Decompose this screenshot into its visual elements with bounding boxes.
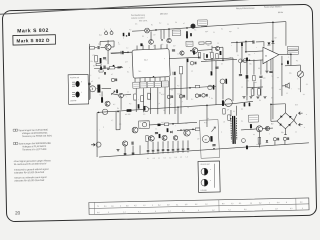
capacitor C50 dark bbox=[128, 33, 130, 36]
node: T1 base bbox=[101, 46, 106, 48]
IC bottom pin stubs bbox=[134, 78, 136, 82]
resistor R31 bbox=[253, 75, 256, 81]
capacitor C48 dark bbox=[116, 89, 118, 93]
transistor T10 bbox=[162, 135, 167, 140]
node J8 bbox=[245, 51, 247, 53]
connector Bu2 bbox=[102, 109, 108, 115]
trimmer pair TP2 bbox=[190, 61, 194, 65]
diode D9 bbox=[170, 131, 172, 133]
transistor T12 bbox=[256, 126, 262, 132]
node J20 bbox=[198, 57, 200, 59]
capacitor C33 dark bbox=[187, 59, 189, 63]
transistor T13 bbox=[180, 51, 184, 55]
socket pin stubs bbox=[105, 30, 107, 31]
transistor T2 bbox=[149, 40, 154, 45]
wire: net y62 bbox=[201, 59, 237, 61]
transistor T5 bbox=[192, 48, 198, 54]
capacitor C32 dark bbox=[193, 51, 195, 55]
wire: c36 c37 stubs bbox=[243, 102, 245, 103]
capacitor C34 dark bbox=[211, 71, 213, 75]
capacitor C14 dark bbox=[138, 104, 140, 108]
wire: mic input rail bbox=[89, 47, 97, 49]
node J26 bbox=[245, 41, 247, 43]
resistor R12 dark bbox=[101, 97, 103, 103]
wire: drop x236 bbox=[236, 42, 238, 52]
wire: net y49 bbox=[212, 46, 223, 49]
capacitor C12 bbox=[117, 67, 120, 68]
wire: riser x211 bbox=[211, 46, 212, 71]
wire: bridge bottom stub bbox=[284, 129, 286, 135]
plug arrow Bu4 bbox=[91, 143, 95, 146]
wire: drop x168 bbox=[168, 29, 170, 38]
resistor R10 bbox=[109, 67, 115, 70]
tick on left rail bbox=[89, 83, 90, 85]
capacitor C27 dark bbox=[250, 124, 252, 128]
capacitor C44 dark bbox=[241, 43, 243, 46]
motor M1 bbox=[202, 135, 209, 142]
wire: drops to rail left bbox=[124, 146, 126, 155]
node J29 bbox=[213, 148, 215, 150]
resistor R18 bbox=[146, 136, 149, 142]
wire: T1 emitter bbox=[107, 50, 110, 64]
resistor R28 bbox=[148, 93, 151, 99]
connector Bu3 bbox=[143, 107, 148, 112]
wire: mic link bbox=[97, 88, 99, 90]
wire: t12 row bbox=[241, 128, 257, 131]
capacitor C8 dark bbox=[220, 51, 222, 55]
node J28 bbox=[180, 129, 182, 131]
node J6 bbox=[272, 22, 274, 24]
connector Bu4 bbox=[96, 142, 101, 147]
capacitor C2 bbox=[103, 58, 106, 59]
node J7 bbox=[222, 60, 224, 62]
wire: top bus main bbox=[201, 22, 286, 27]
resistor R24 bbox=[199, 42, 204, 44]
capacitor C18 dark bbox=[222, 100, 224, 106]
label: TBA 800 type 2 bbox=[287, 51, 298, 55]
row of trimmers bbox=[167, 95, 170, 98]
bridge rectifier GL1 bbox=[277, 113, 294, 129]
wire: t6 links bbox=[111, 93, 119, 95]
transformer Tr1 core bbox=[232, 116, 234, 144]
diode D10 bbox=[266, 140, 268, 142]
resistor R1 bbox=[90, 47, 95, 50]
capacitor C51 dark bbox=[140, 43, 142, 46]
node J1 bbox=[127, 52, 129, 54]
transistor T14 bbox=[215, 47, 219, 51]
input circles pair bbox=[239, 59, 243, 63]
wire: op-amp feedback top bbox=[263, 42, 265, 47]
capacitor C3 electrolytic bbox=[120, 51, 122, 54]
resistor R20 bbox=[228, 115, 231, 121]
wire: drop x203 bbox=[203, 53, 205, 60]
wire: bus y108 bbox=[97, 109, 144, 112]
capacitor C47 bbox=[104, 65, 105, 68]
IC top pin stubs bbox=[136, 45, 138, 50]
bottom caps row A bbox=[124, 153, 127, 154]
node J22 bbox=[190, 50, 192, 52]
resistor R14 bbox=[223, 109, 226, 115]
capacitor C11 dark bbox=[100, 66, 102, 70]
capacitor C19 dark bbox=[246, 58, 248, 62]
wire: right bus drop B bbox=[285, 22, 286, 46]
wire: t11 row bbox=[177, 129, 197, 130]
node J31 bbox=[249, 59, 251, 61]
wire: drop x245 bbox=[245, 42, 247, 52]
transformer windings bbox=[231, 118, 237, 140]
text block: playback voltages note bbox=[13, 142, 15, 144]
node J13 bbox=[177, 106, 179, 108]
bottom table bbox=[89, 198, 309, 215]
resistor R32 bbox=[211, 52, 214, 58]
wire: opamp out bbox=[279, 53, 291, 56]
transistor T18 bbox=[132, 127, 138, 133]
capacitor C4 dark bbox=[186, 34, 188, 38]
diode D1 bbox=[271, 41, 274, 44]
diode D11 blob bbox=[157, 124, 160, 126]
wire: transformer primary top bbox=[230, 110, 232, 116]
resistor R25 bbox=[206, 42, 211, 44]
node J24 bbox=[189, 87, 191, 89]
diode D8 block bbox=[127, 109, 132, 112]
transistor T17 bbox=[173, 136, 177, 140]
wire: drop x246 bbox=[246, 59, 248, 100]
wire: speaker link bbox=[281, 56, 283, 96]
wire: opamp pin drops bbox=[266, 61, 268, 71]
electrolytic pair EP2 bbox=[208, 85, 212, 89]
node J30 bbox=[117, 111, 119, 113]
wire: bridge left bbox=[271, 120, 277, 122]
ground sym G1 bbox=[116, 149, 119, 151]
resistor R15 bbox=[251, 89, 254, 96]
transistor T15 bbox=[265, 126, 269, 130]
text block: recording voltages note bbox=[13, 128, 53, 182]
node J2 bbox=[155, 29, 157, 31]
wire: r15 r16 top bbox=[247, 86, 263, 89]
wire: row y123 ext bbox=[176, 122, 197, 123]
wire: stage1 output bbox=[111, 52, 121, 54]
diode D2 bbox=[267, 42, 270, 45]
wire: drop x222 bbox=[222, 47, 225, 60]
transistor T19 bbox=[105, 101, 110, 106]
transistor T16 bbox=[149, 136, 155, 142]
label: pin ref bbox=[186, 41, 193, 46]
wire: riser x215 bbox=[215, 61, 217, 105]
node J14 bbox=[172, 123, 174, 125]
capacitor C49 dark bbox=[206, 54, 208, 58]
vertical wiring forest bbox=[135, 88, 138, 112]
node J27 bbox=[126, 35, 128, 37]
transistor T3 bbox=[167, 38, 171, 42]
capacitor C23 bars bbox=[155, 133, 158, 134]
IC pin label boxes bbox=[133, 82, 140, 88]
transistor T11 bbox=[184, 130, 191, 137]
wire: ep1 drop bbox=[222, 84, 225, 100]
resistor R2 bbox=[95, 55, 98, 62]
capacitor C36 dark bbox=[244, 103, 246, 106]
label: TBA 800 type bbox=[287, 46, 298, 50]
wire: gnd row drops bbox=[246, 79, 249, 95]
wire: mid drops bbox=[147, 142, 149, 150]
resistor R16 bbox=[258, 89, 261, 96]
wire: riser x206 bbox=[206, 105, 209, 127]
capacitor C25 dark bbox=[210, 136, 212, 142]
node J4 bbox=[186, 27, 188, 29]
meter M1 bbox=[297, 71, 304, 78]
wire: net y44 bbox=[231, 41, 253, 42]
resistor R26 bbox=[134, 94, 137, 100]
resistor R7 bbox=[198, 53, 201, 59]
wire: drop to T2 bbox=[150, 31, 152, 39]
transistor T4 bbox=[191, 24, 195, 28]
wire: bus to lamp bbox=[132, 30, 145, 33]
wire: net y58 bbox=[169, 57, 199, 58]
resistor R23 bbox=[258, 138, 261, 145]
wire: p1 drop bbox=[232, 58, 234, 101]
wire: row y123 bbox=[150, 124, 177, 125]
power rail comps row bbox=[94, 67, 123, 69]
op-amp IS1 input wires bbox=[245, 51, 263, 52]
node J5 bbox=[161, 39, 163, 41]
gnd G2 bbox=[265, 71, 268, 73]
resistor R29 bbox=[164, 123, 168, 126]
wire: drop x160 bbox=[160, 30, 162, 39]
resistor R19 bbox=[195, 128, 200, 131]
wire: right bus drop A bbox=[271, 22, 275, 119]
wire: meter feed bbox=[299, 65, 301, 71]
capacitor C44b dark bbox=[246, 75, 249, 78]
wire: into IC box bbox=[111, 52, 132, 53]
wire: drop x163 bbox=[163, 29, 165, 38]
capacitor C54 dark bbox=[113, 65, 115, 68]
resistor R8 bbox=[216, 54, 219, 59]
wire: bridge right to plug bbox=[294, 114, 297, 120]
wire: drop x241 bbox=[241, 46, 244, 61]
node J3 bbox=[168, 28, 170, 30]
transistor T6 bbox=[119, 93, 124, 98]
wire: bias branch bbox=[115, 112, 118, 130]
node J21 bbox=[153, 76, 155, 78]
lamp La1 bbox=[145, 28, 150, 33]
inset box: transistor view BC bbox=[198, 161, 220, 192]
capacitor C37 dark bbox=[249, 103, 251, 106]
trimmer arrow bbox=[111, 91, 115, 95]
node J23 bbox=[98, 112, 100, 114]
capacitor C53 dark bbox=[190, 33, 192, 36]
bottom caps row B bbox=[147, 150, 150, 151]
IC block IS2 bbox=[132, 49, 170, 79]
capacitor C43 bbox=[259, 76, 262, 77]
capacitor C15 dark bbox=[144, 106, 146, 110]
cap pair C28 bbox=[273, 138, 276, 141]
node J32 bbox=[120, 66, 122, 68]
cap pair C29 bbox=[283, 137, 286, 140]
socket pins Bu1 bbox=[105, 32, 108, 35]
wire: bridge top drop bbox=[284, 104, 286, 113]
resistor R30 bbox=[195, 85, 200, 87]
microphone M bbox=[90, 86, 96, 92]
resistor R33 bbox=[99, 70, 103, 72]
capacitor C13 dark bbox=[97, 85, 100, 93]
potentiometer P1 bbox=[225, 99, 233, 107]
transistor T9 bbox=[122, 141, 127, 146]
wire: mid bus y104 bbox=[233, 101, 253, 103]
capacitor C38 dark bbox=[246, 145, 248, 149]
resistor R9 bbox=[96, 63, 101, 65]
wire: mic bias bbox=[101, 91, 103, 97]
op-amp IS1 bbox=[263, 47, 280, 64]
capacitor C24 dark bbox=[159, 134, 161, 138]
mains plug arrow 1 bbox=[298, 112, 302, 115]
wire: T5 collector net bbox=[198, 49, 212, 52]
left vertical rail bbox=[88, 44, 90, 100]
resistor R27 bbox=[141, 96, 144, 102]
capacitor C35 bbox=[215, 67, 218, 68]
capacitor C26 bbox=[212, 145, 215, 146]
wire: out down bbox=[290, 54, 292, 65]
title box Mark S 802 D bbox=[13, 35, 56, 45]
label: voltage selector box bbox=[248, 115, 258, 122]
node J11 bbox=[107, 68, 109, 70]
speaker LS1 bbox=[285, 83, 289, 88]
bottom rail bbox=[99, 143, 309, 157]
capacitor C1 bbox=[98, 46, 99, 49]
inset box: transistor view AC151 bbox=[68, 74, 89, 104]
wire: net y88 bbox=[169, 86, 216, 89]
wire: T1 collector feedback bbox=[100, 40, 114, 43]
preamp drops row bbox=[239, 63, 241, 74]
wire: c28 c29 drops bbox=[274, 141, 276, 145]
transistor T1 bbox=[105, 44, 111, 50]
node J9 bbox=[290, 53, 292, 55]
resistor R3 value bbox=[100, 58, 102, 63]
motor enclosure bbox=[199, 120, 219, 159]
capacitor C10 dark bbox=[287, 61, 289, 65]
label: 2x BC 238 bbox=[172, 30, 181, 36]
capacitor C46 dark bbox=[167, 128, 169, 132]
wire: top bus left bbox=[149, 27, 207, 31]
capacitor C42 bbox=[239, 75, 242, 76]
pilot lamp La2 bbox=[242, 139, 246, 143]
wire: meter gnd bbox=[299, 77, 302, 92]
trimmer arrow 2 bbox=[211, 127, 215, 132]
capacitor C40 bbox=[269, 71, 272, 72]
node J10 bbox=[281, 63, 283, 65]
node J25 bbox=[270, 104, 272, 106]
trimmer pair TP1 bbox=[111, 78, 114, 81]
label: BC 238 A bbox=[198, 20, 208, 26]
capacitor C30 electrolytic bbox=[172, 72, 174, 75]
capacitor C55 bbox=[105, 72, 106, 75]
capacitor C45 dark bbox=[123, 33, 125, 36]
capacitor C9 bbox=[253, 40, 254, 43]
wire: riser x177 bbox=[177, 107, 180, 123]
capacitor C20 bbox=[132, 142, 133, 145]
wire: bus y107 right bbox=[148, 104, 233, 109]
wire: t12 down bbox=[258, 130, 261, 147]
gnd row under preamp bbox=[242, 96, 245, 98]
capacitor C31 bbox=[172, 50, 175, 51]
monitor box Bu5 bbox=[139, 121, 150, 129]
resistor R11 bbox=[179, 66, 182, 74]
electrolytic pair EP1 bbox=[220, 79, 225, 84]
mains plug arrow 2 bbox=[298, 123, 302, 126]
capacitor C52 dark bbox=[186, 31, 188, 34]
wire: top link y60 bbox=[204, 58, 233, 60]
